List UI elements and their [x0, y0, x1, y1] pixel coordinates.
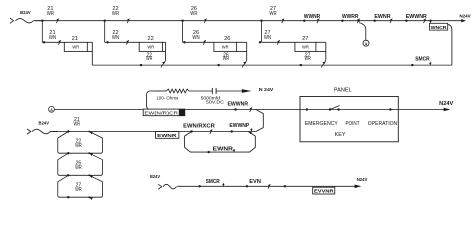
svg-text:WR: WR [269, 11, 276, 17]
svg-text:WN: WN [192, 35, 199, 41]
svg-text:100- Ohms: 100- Ohms [156, 95, 179, 100]
contact slash 26WN [203, 40, 205, 45]
svg-text:EVN: EVN [249, 179, 261, 185]
svg-text:N 24V: N 24V [259, 87, 275, 92]
arrow N24V (bottom) [355, 185, 362, 189]
contact slash WWRR with drop [357, 19, 359, 24]
wire to resistor [152, 90, 166, 92]
junction dot panel left [306, 108, 308, 110]
relay box WNCR [430, 23, 448, 30]
contact slash 26WR on top rail [204, 19, 206, 24]
relay box EWNR (rail B) [156, 132, 179, 139]
svg-text:WR: WR [75, 187, 82, 193]
arrow N 24V (RC branch) [242, 89, 252, 93]
wire resistor to capacitor [189, 90, 212, 92]
contact cell 22 WR (chain hexagon) [58, 132, 103, 154]
svg-text:A: A [365, 42, 368, 46]
svg-text:WR: WR [305, 56, 312, 62]
svg-text:WN: WN [264, 35, 271, 41]
wire unit 22 down to SMCR rail [165, 42, 167, 60]
junction dot 1 (bottom) [199, 185, 201, 187]
junction dot unit 27 row2 [259, 41, 261, 43]
svg-text:WN: WN [49, 35, 56, 41]
svg-text:WR: WR [72, 44, 79, 49]
connector circle A (middle left) [49, 106, 55, 112]
svg-text:WR: WR [190, 11, 197, 17]
relay box EW(N/R)CR [143, 109, 185, 116]
svg-text:EWNR: EWNR [213, 147, 234, 153]
wire box 26 extension [237, 41, 247, 43]
relay coil box 26 WR [214, 42, 237, 51]
svg-text:N24V: N24V [459, 14, 471, 20]
svg-text:EWWNP: EWWNP [229, 123, 249, 129]
arrow join unit 26 on SMCR rail [243, 62, 246, 65]
svg-text:B24V: B24V [39, 120, 50, 125]
contact slash 27WR on top rail [282, 19, 284, 24]
svg-text:EWNR: EWNR [157, 133, 177, 138]
junction dot unit 26 row2 [183, 41, 185, 43]
contact slash EWNR [390, 19, 392, 24]
node B24V entry connector (bottom) [158, 184, 162, 189]
node WWNR dot [303, 20, 305, 22]
junction dot WNCR tap [429, 20, 431, 22]
svg-text:22: 22 [147, 36, 153, 42]
svg-text:WR: WR [302, 44, 309, 49]
junction dots hexagon EWNR [190, 130, 192, 132]
svg-text:21: 21 [72, 36, 78, 42]
junction dots cell 22 [67, 130, 69, 132]
contact slash EVN [268, 184, 270, 189]
contact slash 22WR on top rail [127, 19, 129, 24]
resistor 100 Ohms [166, 89, 189, 93]
key switch contact dots [329, 108, 331, 110]
svg-text:EWN/RXCR: EWN/RXCR [183, 124, 215, 130]
junction dot unit 21 row2 [43, 41, 45, 43]
svg-text:26: 26 [224, 36, 230, 42]
junction dot 27WR on SMCR rail [300, 64, 302, 66]
wire rail B [52, 131, 256, 133]
squiggle B24V feed (middle) [32, 129, 51, 134]
node EWNR dot (top rail) [374, 20, 376, 22]
junction dot 22WR on SMCR rail [140, 64, 142, 66]
inductor/fuse squiggle B24V feed [16, 19, 34, 23]
junction dots cell 26 [67, 152, 69, 154]
contact slash 27WN [277, 40, 279, 45]
svg-text:EWWNR: EWWNR [228, 102, 249, 108]
svg-text:PANEL: PANEL [334, 87, 352, 93]
junction dot 2 (bottom) [246, 185, 248, 187]
svg-text:EMERGENCY: EMERGENCY [305, 121, 339, 127]
arrow N24V (middle right) [444, 108, 451, 112]
wire box 21 extension [87, 41, 92, 43]
wire unit 26 down to SMCR rail [246, 42, 248, 60]
contact slash 21WR on top rail [56, 19, 58, 24]
junction dot 26WR on SMCR rail [217, 64, 219, 66]
relay coil box 27 WR [295, 42, 316, 51]
svg-text:SMCR: SMCR [206, 179, 220, 185]
wire stub to WNCR box [430, 21, 432, 24]
wire box 22 extension [162, 41, 165, 43]
junction dot panel right [389, 108, 391, 110]
junction dot SMCR [411, 64, 413, 66]
arrow SMCR onto rail [429, 62, 431, 65]
svg-text:B24V: B24V [150, 174, 161, 179]
wire unit 27 down to SMCR rail [325, 42, 327, 60]
svg-text:EWNR: EWNR [374, 14, 390, 20]
svg-text:WR: WR [147, 44, 154, 49]
junction dot EWWNP [231, 130, 233, 132]
relay box EVVNR [313, 187, 335, 194]
svg-text:WR: WR [47, 11, 54, 17]
svg-text:WN: WN [112, 35, 119, 41]
wire bottom line [177, 185, 355, 187]
squiggle B24V feed (bottom) [163, 184, 177, 189]
arrow EWWNP onto rail B [250, 128, 252, 131]
svg-text:EWWNR: EWWNR [406, 14, 427, 20]
contact slash 21WN [58, 40, 60, 45]
contact cell 26 WR (chain hexagon) [58, 153, 103, 175]
svg-text:WR: WR [75, 143, 82, 149]
wire WNCR to SMCR rail [448, 24, 452, 65]
svg-text:WNCR: WNCR [431, 25, 448, 30]
svg-text:WWRR: WWRR [342, 14, 359, 20]
node WWRR dot [341, 20, 343, 22]
node B24V entry connector (top-left) [10, 18, 14, 23]
svg-text:B24V: B24V [20, 10, 31, 15]
arrow SMCR onto bottom line [222, 183, 224, 186]
wire row2 unit 27 [262, 41, 295, 43]
arrow join unit 22 on SMCR rail [162, 62, 165, 65]
junction dots chain bottom [67, 196, 69, 198]
contact cell 27 WR (chain hexagon) [58, 175, 103, 197]
wire rail B24V (top rail) [35, 20, 462, 22]
junction dots cell 27 [67, 174, 69, 176]
junction dot EWWNR (rail A) [234, 108, 236, 110]
contact hexagon EWNR (below rail B) [185, 132, 256, 153]
svg-text:WR: WR [223, 56, 230, 62]
svg-text:POINT: POINT [346, 121, 361, 127]
junction dot 3 (bottom) [284, 185, 286, 187]
svg-text:WR: WR [74, 122, 81, 128]
wire bracket rail A to rail B [256, 110, 263, 132]
wire drop to circle A [359, 23, 366, 41]
svg-text:EVVNR: EVVNR [314, 189, 335, 194]
junction dot unit 22 row2 [106, 41, 108, 43]
arrow N24V (top right) [461, 19, 466, 22]
junction dot unit 27 on top rail [260, 20, 262, 22]
wire tap up to RC branch [147, 91, 153, 110]
node B24V entry connector (middle left) [27, 129, 31, 134]
capacitor 5000mfd plates [211, 88, 213, 94]
wire unit 21 down to SMCR rail start [91, 42, 93, 65]
contact slash EWWNR (rail A) [250, 107, 252, 112]
contact slash WWNR [317, 19, 319, 24]
filled tag on EW(N/R)CR box [179, 109, 185, 115]
wire drop unit 26 from top rail [182, 21, 184, 43]
junction dot unit 26 on top rail [181, 20, 183, 22]
wire capacitor to arrow [216, 90, 242, 92]
panel enclosure box [300, 97, 398, 142]
svg-text:EW(N/R)CR: EW(N/R)CR [144, 110, 178, 115]
wire drop unit 22 from top rail [104, 21, 106, 43]
svg-text:N24V: N24V [357, 177, 368, 182]
svg-text:WR: WR [75, 165, 82, 171]
wire drop unit 27 from top rail [261, 21, 263, 43]
wire rail A to panel and beyond [185, 109, 444, 111]
svg-text:27: 27 [302, 36, 308, 42]
svg-text:WR: WR [146, 56, 153, 62]
contact slash EWN/RXCR [210, 129, 212, 134]
key switch blade [330, 106, 340, 110]
wire circle A to EW(N/R)CR box [54, 109, 143, 111]
svg-text:OPERATION: OPERATION [368, 121, 398, 127]
contact slash EWWNR [423, 19, 425, 24]
relay coil box 22 WR [139, 42, 162, 51]
wire row2 unit 26 [183, 41, 214, 43]
wire row2 unit 21 [42, 41, 64, 43]
svg-text:WR: WR [222, 44, 229, 49]
wire row2 unit 22 [105, 41, 140, 43]
svg-text:KEY: KEY [335, 132, 346, 138]
contact slash 22WN [126, 40, 128, 45]
junction dot unit 22 on top rail [104, 20, 106, 22]
junction dot unit 21 on top rail [41, 20, 43, 22]
arrow join unit 27 on SMCR rail [322, 62, 325, 65]
junction dot WWRR drop [358, 20, 360, 22]
wire SMCR rail [92, 64, 452, 66]
svg-text:SMCR: SMCR [415, 57, 430, 63]
node EWWNR dot (top rail) [405, 20, 407, 22]
wire box 27 extension [316, 41, 326, 43]
svg-text:N24V: N24V [439, 101, 454, 107]
connector circle A (top) [363, 40, 369, 46]
arrow EWNR onto hexagon bottom [233, 149, 235, 152]
svg-text:50V.DC: 50V.DC [206, 100, 225, 105]
wire drop unit 21 from top rail [41, 21, 43, 43]
relay coil box 21 WR [64, 42, 87, 51]
svg-text:A: A [50, 108, 53, 112]
svg-text:WR: WR [112, 11, 119, 17]
